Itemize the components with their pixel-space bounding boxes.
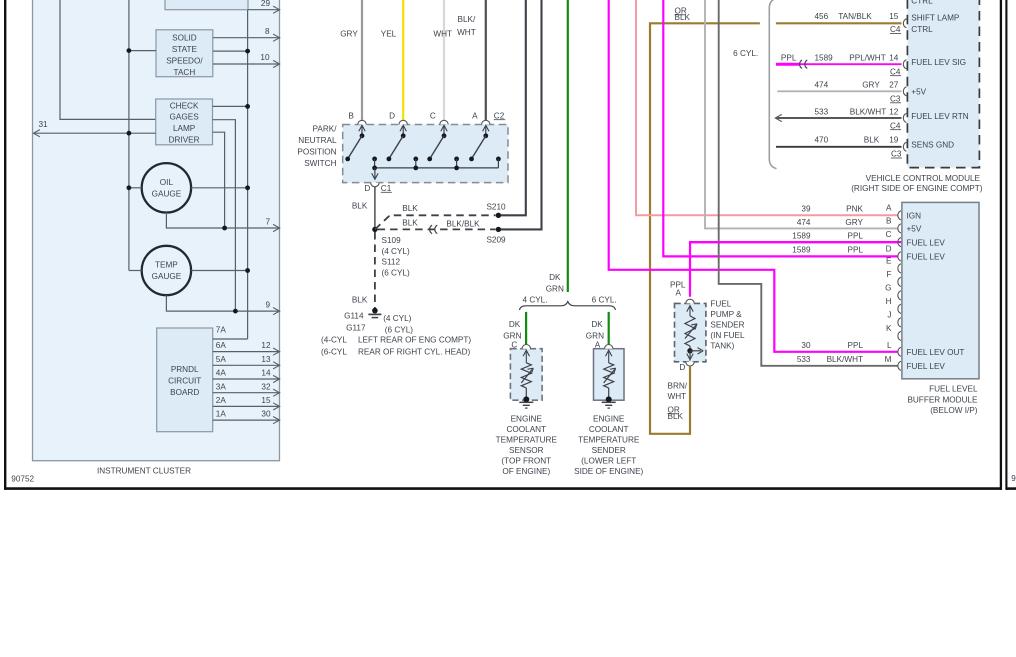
svg-text:COOLANT: COOLANT (507, 425, 547, 434)
svg-text:27: 27 (889, 81, 899, 90)
ground below sender (602, 402, 616, 408)
svg-text:FUEL LEV RTN: FUEL LEV RTN (911, 112, 968, 121)
wire DK GRN 4cyl branch (503, 312, 526, 345)
wire WHT from top (433, 0, 452, 121)
wire PRNDL 6A pin 12 (213, 341, 280, 355)
svg-text:FUEL LEV OUT: FUEL LEV OUT (907, 348, 965, 357)
svg-text:533: 533 (797, 355, 811, 364)
svg-text:LEFT REAR OF ENG COMPT): LEFT REAR OF ENG COMPT) (358, 335, 471, 344)
svg-text:GRY: GRY (845, 218, 863, 227)
buffer module pin M (885, 355, 901, 371)
buffer module pin K (886, 324, 901, 341)
svg-text:BLK/WHT: BLK/WHT (850, 107, 886, 116)
svg-text:ENGINE: ENGINE (593, 415, 625, 424)
buffer module pin D (886, 244, 901, 261)
buffer module pin B (886, 216, 901, 233)
buffer module pin C (886, 230, 901, 247)
switch pin C (427, 111, 459, 168)
PRNDL circuit board U3 (157, 328, 213, 432)
svg-text:A: A (676, 288, 682, 297)
wire pin 31 (33, 120, 155, 137)
wire oil gauge left (126, 185, 141, 190)
svg-text:C1: C1 (381, 184, 392, 193)
svg-text:S210: S210 (486, 203, 506, 212)
wire bus vertical to PRNDL 7A (247, 10, 249, 339)
wire GRY from top (340, 0, 362, 121)
wire speedo left to sensor bus (126, 48, 156, 53)
svg-text:TEMP: TEMP (155, 261, 178, 270)
wire PPL to buffer D (663, 0, 898, 256)
svg-text:D: D (679, 363, 685, 372)
svg-text:STATE: STATE (172, 45, 198, 54)
svg-text:4A: 4A (216, 369, 227, 378)
svg-text:C2: C2 (494, 111, 505, 120)
svg-text:PNK: PNK (846, 205, 863, 214)
svg-text:WHT: WHT (668, 392, 687, 401)
svg-text:B: B (886, 216, 892, 225)
wire DK GRN from top (546, 0, 568, 294)
6 CYL bracket (733, 0, 776, 169)
wire temp gauge pin 9 (166, 295, 279, 315)
svg-text:PPL: PPL (848, 341, 864, 350)
splice junction S109 (372, 227, 410, 278)
wire speedo pin 8 (213, 27, 280, 42)
svg-text:BLK/WHT: BLK/WHT (827, 355, 863, 364)
svg-text:B: B (348, 111, 354, 120)
page 1 frame left border (4, 0, 6, 490)
svg-text:533: 533 (815, 107, 829, 116)
svg-text:CIRCUIT: CIRCUIT (168, 376, 201, 385)
svg-text:G114: G114 (344, 311, 364, 320)
svg-text:(6 CYL): (6 CYL) (385, 326, 413, 335)
wire PRNDL 4A pin 14 (213, 369, 280, 383)
svg-text:C: C (886, 230, 892, 239)
svg-text:(4 CYL): (4 CYL) (382, 247, 410, 256)
wire BLK/WHT to buffer M (719, 0, 898, 366)
svg-text:TACH: TACH (174, 68, 196, 77)
wire PPL C horizontal into pin (690, 241, 898, 243)
wire PRNDL 2A pin 15 (213, 396, 280, 410)
svg-text:470: 470 (815, 135, 829, 144)
svg-text:BLK/: BLK/ (458, 15, 476, 24)
wire PRNDL 7A to bus (213, 326, 248, 339)
page 2 figure number 9... (1011, 474, 1016, 483)
wire GRY to buffer B (705, 0, 898, 228)
svg-text:30: 30 (261, 410, 271, 419)
svg-text:31: 31 (39, 120, 49, 129)
svg-text:TEMPERATURE: TEMPERATURE (496, 436, 558, 445)
wire check gages to bus (213, 104, 251, 109)
svg-text:D: D (389, 111, 395, 120)
svg-text:1589: 1589 (792, 246, 811, 255)
engine coolant temperature sensor RT1 (510, 341, 542, 403)
svg-text:7: 7 (265, 218, 270, 227)
VCM pin 15 TAN/BLK (815, 12, 907, 34)
svg-text:D: D (364, 184, 370, 193)
svg-text:PPL: PPL (848, 246, 864, 255)
svg-text:SIDE OF ENGINE): SIDE OF ENGINE) (574, 467, 643, 476)
svg-text:FUEL LEV: FUEL LEV (907, 362, 946, 371)
svg-text:G: G (885, 283, 891, 292)
svg-text:TANK): TANK) (710, 341, 734, 350)
page 1 frame right border (1000, 0, 1002, 490)
VCM pin 27 GRY (777, 81, 906, 104)
wire oil gauge right to bus (191, 185, 250, 190)
svg-text:D: D (886, 244, 892, 253)
wire temp gauge left (129, 270, 142, 272)
ground location notes (321, 335, 471, 356)
wire check gages to temp output (213, 120, 236, 311)
box above (cut off at top) (165, 0, 248, 10)
svg-text:BLK: BLK (352, 296, 368, 305)
svg-text:(6-CYL: (6-CYL (321, 348, 347, 357)
page 2 frame left border (1005, 0, 1007, 490)
oil gauge G1 (142, 163, 191, 212)
switch pin D (387, 111, 419, 168)
svg-text:FUEL: FUEL (710, 299, 731, 308)
sender caption (574, 415, 643, 477)
svg-text:8: 8 (265, 27, 270, 36)
fuel level buffer module U5 (902, 202, 979, 378)
svg-text:WHT: WHT (433, 29, 452, 38)
svg-text:INSTRUMENT CLUSTER: INSTRUMENT CLUSTER (97, 467, 191, 476)
svg-text:5A: 5A (216, 355, 227, 364)
svg-text:(RIGHT SIDE OF ENGINE COMPT): (RIGHT SIDE OF ENGINE COMPT) (851, 184, 983, 193)
svg-text:(4 CYL): (4 CYL) (383, 314, 411, 323)
VCM pin 12 BLK/WHT (775, 107, 906, 130)
svg-text:DRIVER: DRIVER (169, 136, 200, 145)
svg-text:1589: 1589 (815, 53, 834, 62)
svg-text:32: 32 (261, 382, 271, 391)
svg-text:14: 14 (261, 369, 271, 378)
park/neutral position switch S1 (297, 125, 508, 183)
page 2 frame bottom border (1006, 487, 1016, 490)
svg-text:TEMPERATURE: TEMPERATURE (578, 436, 640, 445)
svg-text:SENDER: SENDER (710, 320, 744, 329)
svg-text:S209: S209 (486, 236, 506, 245)
svg-text:474: 474 (797, 218, 811, 227)
svg-text:90752: 90752 (11, 474, 34, 483)
svg-text:YEL: YEL (381, 29, 397, 38)
svg-text:+5V: +5V (911, 87, 926, 96)
svg-text:C4: C4 (890, 121, 901, 130)
svg-text:SENSOR: SENSOR (509, 446, 544, 455)
sensor caption (496, 415, 558, 477)
buffer module pin F (886, 270, 900, 287)
connector C2 label (494, 111, 505, 120)
engine coolant temperature sender RT2 (594, 341, 625, 403)
VCM pin 14 PPL/WHT (776, 53, 906, 76)
wire BLK/WHT from top (457, 0, 486, 121)
svg-text:BLK: BLK (402, 204, 418, 213)
svg-text:6A: 6A (216, 341, 227, 350)
wire DK GRN 6cyl branch (586, 312, 609, 345)
svg-text:474: 474 (815, 81, 829, 90)
svg-text:1A: 1A (216, 410, 227, 419)
buffer module pin E (886, 256, 901, 273)
svg-text:SOLID: SOLID (172, 34, 197, 43)
svg-text:15: 15 (889, 12, 899, 21)
svg-text:2A: 2A (216, 396, 227, 405)
svg-text:COOLANT: COOLANT (589, 425, 629, 434)
wire temp gauge right to bus (191, 268, 250, 273)
svg-text:GRY: GRY (862, 81, 880, 90)
wire PPL to buffer L (609, 0, 898, 352)
svg-text:VEHICLE CONTROL MODULE: VEHICLE CONTROL MODULE (866, 174, 981, 183)
svg-text:PPL: PPL (781, 53, 797, 62)
svg-text:14: 14 (889, 53, 899, 62)
svg-text:POSITION: POSITION (297, 148, 336, 157)
svg-text:BLK: BLK (864, 135, 880, 144)
splice S210 (486, 203, 506, 218)
ground G114/G117 (344, 308, 413, 335)
svg-text:13: 13 (261, 355, 271, 364)
wire speedo pin 10 (213, 53, 280, 68)
svg-text:9: 9 (265, 301, 270, 310)
page 1 frame bottom border (4, 487, 1002, 490)
svg-text:IGN: IGN (907, 212, 922, 221)
wire PRNDL 5A pin 13 (213, 355, 280, 369)
svg-text:GAUGE: GAUGE (152, 272, 182, 281)
svg-text:29: 29 (261, 0, 271, 8)
wire PRNDL 1A pin 30 (213, 410, 280, 424)
svg-text:SHIFT LAMP: SHIFT LAMP (911, 14, 960, 23)
svg-text:L: L (887, 341, 892, 350)
svg-text:F: F (886, 270, 891, 279)
wire from S209 up (501, 0, 542, 229)
switch output pin D / C1 (364, 168, 391, 193)
svg-text:PARK/: PARK/ (313, 125, 338, 134)
wire BLK/BLK dashed to S209 (378, 219, 496, 234)
svg-text:BLK: BLK (402, 219, 418, 228)
wire YEL from top (381, 0, 403, 121)
svg-text:J: J (887, 310, 891, 319)
svg-text:FUEL LEV: FUEL LEV (907, 253, 946, 262)
svg-text:GRN: GRN (503, 332, 521, 341)
switch pin A (469, 111, 501, 168)
svg-text:C3: C3 (890, 94, 901, 103)
svg-text:DK: DK (591, 320, 603, 329)
wire BLK dashed to S210 (375, 204, 496, 229)
svg-text:+5V: +5V (907, 225, 922, 234)
svg-text:GRN: GRN (546, 285, 564, 294)
svg-text:GRY: GRY (340, 29, 358, 38)
svg-text:12: 12 (261, 341, 271, 350)
switch pin B (345, 111, 377, 168)
vehicle control module U4 (907, 0, 979, 168)
wire from top to CHECK GAGES upper left (60, 0, 156, 119)
svg-text:PPL: PPL (848, 232, 864, 241)
svg-text:6 CYL.: 6 CYL. (733, 49, 758, 58)
svg-text:30: 30 (801, 341, 811, 350)
svg-text:FUEL LEVEL: FUEL LEVEL (929, 385, 978, 394)
svg-text:(6 CYL): (6 CYL) (382, 268, 410, 277)
svg-text:456: 456 (815, 12, 829, 21)
svg-text:M: M (885, 355, 892, 364)
VCM caption (851, 174, 983, 193)
svg-text:E: E (886, 256, 892, 265)
temp gauge G2 (142, 246, 191, 295)
wire PPL to fuel pump A (670, 242, 902, 297)
svg-text:K: K (886, 324, 892, 333)
wire BRN/WHT OR/BLK from fuel pump D to VCM 15 (650, 7, 902, 434)
svg-text:PPL/WHT: PPL/WHT (849, 53, 885, 62)
splice S209 (486, 227, 506, 245)
instrument cluster box (33, 0, 280, 476)
svg-text:LAMP: LAMP (173, 124, 196, 133)
svg-text:C: C (511, 341, 517, 350)
wire PRNDL 3A pin 32 (213, 382, 280, 396)
VCM pin 19 BLK (776, 135, 906, 158)
svg-text:FUEL LEV SIG: FUEL LEV SIG (911, 58, 966, 67)
wire check gages to oil output (213, 132, 225, 228)
buffer module pin J (887, 310, 900, 327)
svg-text:BOARD: BOARD (170, 388, 199, 397)
check gages lamp driver U2 (156, 99, 213, 145)
svg-text:DK: DK (509, 320, 521, 329)
svg-text:3A: 3A (216, 382, 227, 391)
svg-text:12: 12 (889, 107, 899, 116)
svg-text:DK: DK (549, 273, 561, 282)
svg-text:PRNDL: PRNDL (171, 365, 199, 374)
svg-text:9: 9 (1011, 474, 1016, 483)
svg-text:BLK: BLK (668, 412, 684, 421)
svg-text:G117: G117 (346, 323, 366, 332)
svg-text:TAN/BLK: TAN/BLK (838, 12, 872, 21)
svg-text:FUEL LEV: FUEL LEV (907, 238, 946, 247)
svg-text:CTRL: CTRL (911, 25, 933, 34)
wire BLK dashed to ground (352, 232, 375, 308)
svg-text:OIL: OIL (160, 178, 174, 187)
svg-text:1589: 1589 (792, 232, 811, 241)
wire bus vertical left (sensor bus) (128, 0, 130, 271)
svg-text:H: H (886, 297, 892, 306)
svg-text:10: 10 (260, 53, 270, 62)
buffer module pin G (885, 283, 901, 300)
buffer module pin A (886, 203, 901, 220)
svg-text:WHT: WHT (457, 28, 476, 37)
wire oil gauge pin 7 (166, 213, 279, 232)
svg-text:CTRL: CTRL (911, 0, 933, 5)
wire BLK from C1 (352, 187, 375, 230)
svg-text:4 CYL.: 4 CYL. (522, 296, 547, 305)
svg-text:PUMP &: PUMP & (710, 310, 742, 319)
svg-text:GAGES: GAGES (170, 113, 200, 122)
svg-text:19: 19 (889, 135, 899, 144)
buffer module pin H (886, 297, 901, 314)
svg-text:BLK: BLK (675, 13, 691, 22)
wire from S210 up (501, 0, 526, 215)
wire PPL to buffer C (792, 232, 863, 241)
svg-text:C4: C4 (890, 67, 901, 76)
svg-text:SENDER: SENDER (592, 446, 626, 455)
svg-text:C: C (430, 111, 436, 120)
svg-text:(BELOW I/P): (BELOW I/P) (930, 406, 978, 415)
svg-text:C4: C4 (890, 25, 901, 34)
switch common bus (372, 166, 498, 171)
svg-text:7A: 7A (216, 326, 227, 335)
svg-text:A: A (595, 341, 601, 350)
svg-text:SWITCH: SWITCH (304, 159, 336, 168)
svg-text:S112: S112 (382, 258, 401, 267)
svg-text:BLK: BLK (352, 201, 368, 210)
svg-text:GRN: GRN (586, 332, 604, 341)
svg-text:6 CYL.: 6 CYL. (592, 296, 617, 305)
svg-text:(TOP FRONT: (TOP FRONT (501, 457, 551, 466)
figure number 90752 (11, 474, 34, 483)
ground below sensor (519, 402, 533, 408)
buffer module caption (907, 385, 978, 416)
brace 4CYL/6CYL split (520, 296, 617, 310)
buffer module pin L (887, 341, 901, 357)
svg-text:SENS GND: SENS GND (911, 140, 954, 149)
svg-text:BUFFER MODULE: BUFFER MODULE (907, 395, 978, 404)
fuel pump and sender assembly M1 (675, 288, 706, 372)
svg-text:(IN FUEL: (IN FUEL (710, 331, 745, 340)
svg-text:SPEEDO/: SPEEDO/ (166, 56, 203, 65)
svg-text:OF ENGINE): OF ENGINE) (502, 467, 550, 476)
svg-text:S109: S109 (382, 236, 402, 245)
svg-text:15: 15 (261, 396, 271, 405)
svg-text:A: A (886, 203, 892, 212)
fuel pump caption (710, 299, 745, 350)
svg-text:39: 39 (801, 205, 811, 214)
solid state speedo/tach U1 (156, 30, 213, 77)
svg-text:(4-CYL: (4-CYL (321, 335, 347, 344)
svg-text:(LOWER LEFT: (LOWER LEFT (581, 457, 636, 466)
svg-text:REAR OF RIGHT CYL. HEAD): REAR OF RIGHT CYL. HEAD) (358, 348, 470, 357)
svg-text:CHECK: CHECK (170, 101, 199, 110)
svg-text:BRN/: BRN/ (668, 381, 688, 390)
wire pin 29 (248, 0, 280, 13)
svg-text:C3: C3 (891, 150, 902, 159)
svg-text:GAUGE: GAUGE (152, 189, 182, 198)
wire PNK to buffer A (636, 0, 898, 215)
svg-text:NEUTRAL: NEUTRAL (298, 136, 337, 145)
svg-text:A: A (472, 111, 478, 120)
wire speedo middle to bus (213, 49, 250, 54)
svg-text:ENGINE: ENGINE (511, 415, 543, 424)
svg-text:BLK/BLK: BLK/BLK (446, 219, 480, 228)
